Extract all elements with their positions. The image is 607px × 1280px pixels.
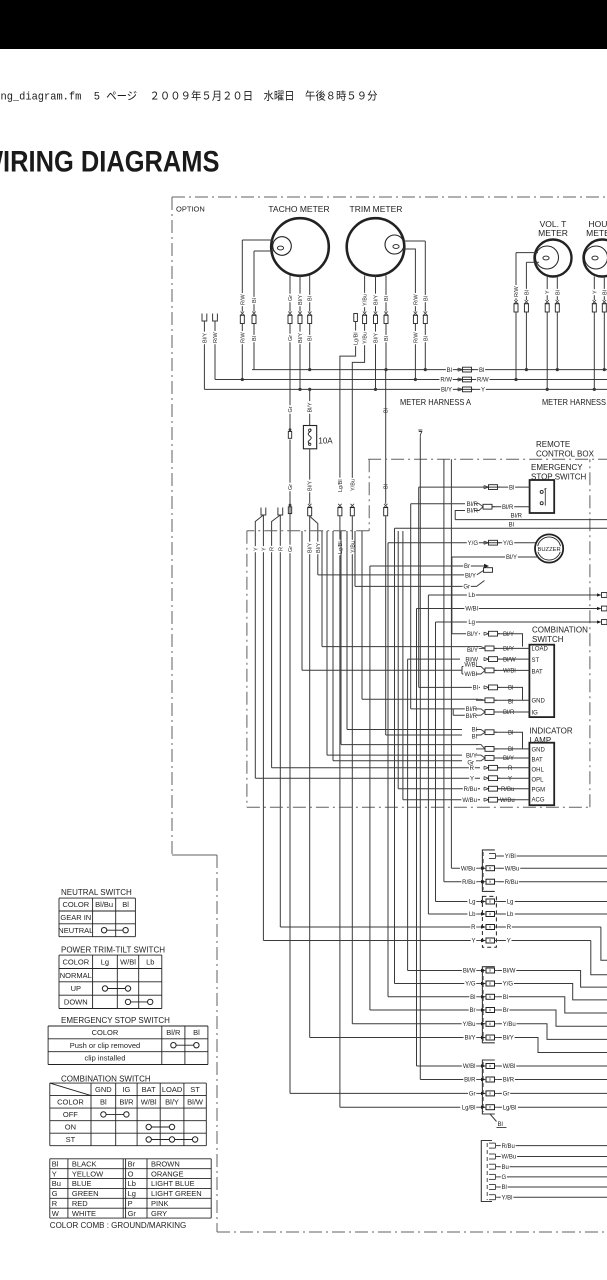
wire trim bulb Bl — [404, 240, 425, 242]
wire Bl bracket — [498, 687, 523, 700]
label Bl/Y — [201, 332, 207, 345]
svg-text:EMERGENCY: EMERGENCY — [531, 463, 583, 472]
wire Y/Bl right — [499, 1196, 607, 1198]
svg-text:Y/G: Y/G — [465, 982, 476, 988]
svg-text:ON: ON — [65, 1123, 76, 1132]
wire Bl/Y straight down to strip — [309, 516, 311, 1037]
svg-text:Lb: Lb — [468, 593, 475, 599]
svg-text:ST: ST — [190, 1085, 200, 1094]
wire Bl/R lower stub — [455, 511, 465, 520]
svg-text:W/Bl: W/Bl — [120, 957, 136, 966]
svg-text:Y/Bu: Y/Bu — [363, 332, 369, 344]
right edge connector Lb — [597, 593, 602, 596]
svg-text:Bl: Bl — [472, 735, 477, 741]
label Lg/Bl mid — [337, 478, 343, 494]
connector W/Bl merge — [476, 667, 485, 671]
svg-text:Y/Bl: Y/Bl — [505, 854, 516, 860]
strip half connector Bu — [489, 1163, 496, 1165]
label Bl/R — [501, 504, 514, 510]
strip Y/Bu row — [352, 1023, 477, 1025]
svg-text:Gr: Gr — [469, 1092, 476, 1098]
svg-text:Bl: Bl — [384, 296, 390, 301]
svg-text:OPTION: OPTION — [176, 205, 205, 214]
label Bl — [251, 297, 257, 304]
svg-text:POWER TRIM-TILT SWITCH: POWER TRIM-TILT SWITCH — [61, 945, 165, 954]
labels R — [470, 924, 476, 930]
svg-text:METER: METER — [538, 228, 568, 238]
svg-text:Br: Br — [128, 1159, 136, 1168]
label Y/Bl — [501, 1195, 514, 1201]
svg-text:PGM: PGM — [532, 787, 546, 793]
svg-text:R: R — [52, 1199, 58, 1208]
svg-text:ST: ST — [532, 658, 540, 664]
svg-text:Bl: Bl — [502, 1185, 507, 1191]
svg-text:Y/G: Y/G — [503, 982, 514, 988]
wire Bl/W ST — [408, 658, 460, 660]
wire Lg row — [436, 621, 598, 623]
connector R — [484, 766, 489, 769]
wire Bl/Y fork jog — [310, 516, 318, 575]
Bl/Y spade lead terminal — [484, 568, 493, 573]
svg-text:Gr: Gr — [463, 585, 470, 591]
svg-text:Bl/Y: Bl/Y — [316, 543, 322, 553]
wire Bl from trim — [385, 276, 387, 312]
svg-text:GND: GND — [532, 699, 546, 705]
wire R exit staircase — [601, 927, 607, 960]
connector Bl — [252, 312, 256, 316]
tacho meter bulb — [273, 237, 292, 256]
right edge connector Lg — [597, 620, 602, 623]
bus connector Bl — [458, 368, 463, 371]
right edge connector W/Bl — [597, 607, 602, 610]
svg-text:Lg: Lg — [468, 620, 475, 626]
svg-text:Lg: Lg — [101, 957, 109, 966]
svg-text:LOAD: LOAD — [162, 1085, 183, 1094]
table EMERGENCY STOP SWITCH — [48, 1025, 208, 1027]
svg-text:Bl/Y: Bl/Y — [374, 333, 380, 343]
svg-text:COMBINATION: COMBINATION — [532, 626, 588, 635]
wire Bl pair GND upper — [347, 729, 462, 731]
strip Y/G row — [395, 983, 478, 985]
svg-text:Bl/Y: Bl/Y — [298, 295, 304, 305]
table COMBINATION SWITCH — [50, 1082, 207, 1084]
label R/Bu — [501, 1143, 516, 1149]
svg-text:Bl/Y: Bl/Y — [308, 543, 314, 553]
neutral switch contact symbol — [104, 929, 126, 931]
strip Lb row — [428, 913, 477, 915]
wire R/Bu vertical — [443, 459, 445, 881]
label W/Bu — [501, 1154, 517, 1160]
label Bl/Y mid — [307, 480, 313, 493]
svg-text:Bl: Bl — [423, 336, 429, 341]
wire Y/Bu down — [351, 516, 353, 1024]
svg-text:Lb: Lb — [469, 912, 476, 918]
label W/Bl — [464, 606, 478, 612]
svg-text:COLOR: COLOR — [62, 900, 89, 909]
wire Y/G to buzzer — [388, 542, 537, 544]
svg-text:Gr: Gr — [288, 406, 294, 412]
svg-text:Bl/Bu: Bl/Bu — [95, 900, 113, 909]
connector Bl harness — [384, 504, 388, 508]
svg-text:Bl/Y: Bl/Y — [374, 295, 380, 305]
wire R/W to bus — [241, 324, 243, 380]
label Bl — [422, 295, 428, 302]
label Y/Bu mid — [349, 478, 355, 492]
svg-text:LIGHT GREEN: LIGHT GREEN — [151, 1189, 202, 1198]
svg-text:BAT: BAT — [142, 1085, 156, 1094]
emergency stop switch box — [530, 480, 555, 513]
svg-text:R/Bu: R/Bu — [462, 880, 475, 886]
wire Bl GND 1 — [419, 686, 480, 688]
wire Bl exit staircase — [499, 997, 607, 1013]
label Bl/Y — [464, 573, 477, 579]
svg-text:P: P — [128, 1199, 133, 1208]
hour meter body — [584, 240, 607, 277]
svg-text:GEAR IN: GEAR IN — [60, 913, 91, 922]
strip R row — [280, 926, 477, 928]
strip Y row — [263, 940, 477, 942]
svg-text:W/Bl: W/Bl — [141, 1097, 157, 1106]
wire R OHL — [272, 767, 480, 769]
strip Lg row — [436, 901, 478, 903]
wire R fork — [279, 515, 281, 927]
svg-text:Bl/R: Bl/R — [502, 505, 514, 511]
svg-text:Bu: Bu — [52, 1179, 61, 1188]
svg-text:Lg: Lg — [469, 900, 476, 906]
labels Lg/Bl — [460, 1105, 476, 1111]
svg-text:Bl/Y: Bl/Y — [202, 333, 208, 343]
connector Bl/Y — [484, 632, 489, 635]
strip R/Bu row — [444, 881, 477, 883]
label Bl — [523, 289, 529, 296]
labels Y — [471, 938, 477, 944]
stop switch contact symbol — [173, 1044, 196, 1046]
wire Bl exit row — [395, 527, 607, 529]
strip group4 bracket — [482, 1060, 494, 1114]
remote control box boundary — [368, 458, 607, 460]
wire Bl/Y LOAD 1 — [452, 633, 480, 635]
spade terminal R — [278, 508, 283, 516]
svg-text:R: R — [471, 925, 476, 931]
wire Bl bracket to GND — [495, 732, 523, 749]
svg-text:LAMP: LAMP — [529, 736, 551, 745]
wire Bl/R IG pair — [411, 708, 478, 710]
trim-tilt UP contact symbol — [105, 988, 128, 990]
wire Y/Bu exit staircase — [499, 1024, 607, 1040]
wire W/Bl row — [417, 608, 598, 610]
connector Y/G — [484, 541, 489, 544]
svg-text:COLOR: COLOR — [92, 1028, 119, 1037]
wire fork Bl/Y to bus — [203, 321, 205, 389]
labels Bl/R — [463, 1077, 476, 1083]
svg-text:Bl: Bl — [503, 995, 508, 1001]
combination OFF contact symbol — [103, 1113, 126, 1115]
combination switch pins — [531, 646, 549, 652]
indicator lamp box — [529, 743, 554, 806]
svg-text:Bl: Bl — [508, 686, 513, 692]
svg-text:BAT: BAT — [532, 669, 544, 675]
svg-text:W/Bl: W/Bl — [503, 1064, 516, 1070]
svg-text:Bl: Bl — [308, 336, 314, 341]
wire trim bulb R/W — [403, 249, 415, 312]
connector Bl/R merge — [474, 504, 483, 507]
svg-text:Bl/R: Bl/R — [467, 502, 479, 508]
strip dashed rail g5 — [486, 1143, 488, 1200]
svg-text:ACG: ACG — [532, 797, 545, 803]
svg-text:Y: Y — [481, 388, 485, 394]
wire Bl/R exit row — [455, 519, 607, 521]
wire Y right — [499, 940, 591, 942]
label G — [501, 1174, 507, 1180]
svg-text:Bl/Y: Bl/Y — [467, 632, 478, 638]
label Lb — [467, 592, 476, 598]
wire R right — [499, 926, 601, 928]
svg-text:Y/Bl: Y/Bl — [502, 1195, 513, 1201]
svg-text:DOWN: DOWN — [64, 997, 88, 1006]
svg-text:WHITE: WHITE — [72, 1209, 96, 1218]
connector Bl/Y fork — [308, 504, 312, 508]
bus connector Y — [458, 388, 463, 391]
svg-text:Bl: Bl — [509, 485, 514, 491]
strip half connector Y/Bl — [489, 1194, 496, 1196]
wire W/Bl right — [499, 1065, 607, 1067]
wire Br exit staircase — [499, 1010, 607, 1026]
svg-text:Bl/Y: Bl/Y — [165, 1097, 179, 1106]
label Gr below bus — [287, 405, 293, 413]
labels Bl/W — [462, 968, 476, 974]
combination switch box — [529, 645, 554, 717]
svg-text:EMERGENCY STOP SWITCH: EMERGENCY STOP SWITCH — [61, 1016, 170, 1025]
svg-text:Br: Br — [464, 564, 470, 570]
wire Bl right — [499, 1186, 607, 1188]
svg-text:Bl/R: Bl/R — [467, 509, 479, 515]
label Lg — [467, 619, 476, 625]
label Bl/Y — [297, 294, 303, 307]
svg-text:PINK: PINK — [151, 1199, 169, 1208]
connector R/W — [514, 300, 518, 304]
wire Gr down — [289, 324, 291, 429]
svg-text:Bl/Y: Bl/Y — [503, 632, 514, 638]
label R/W — [513, 285, 519, 298]
svg-text:Lb: Lb — [507, 912, 514, 918]
svg-text:Y: Y — [470, 776, 474, 782]
svg-text:Bl: Bl — [470, 995, 475, 1001]
svg-text:R/W: R/W — [240, 294, 246, 306]
connector Bl — [424, 312, 428, 316]
svg-text:R: R — [508, 766, 513, 772]
svg-text:TRIM METER: TRIM METER — [350, 204, 403, 214]
bus labels — [446, 367, 453, 373]
svg-text:Bl: Bl — [384, 484, 390, 489]
label Bl below bus — [383, 407, 389, 414]
svg-text:R/Bu: R/Bu — [505, 880, 518, 886]
svg-text:METER: METER — [586, 228, 607, 238]
label Y — [544, 289, 550, 295]
svg-text:Gr: Gr — [288, 335, 294, 341]
svg-text:Bl: Bl — [122, 900, 129, 909]
label Bl/R — [510, 513, 523, 519]
svg-text:R/W: R/W — [413, 332, 419, 344]
tacho meter body — [271, 218, 329, 276]
svg-text:Push or clip removed: Push or clip removed — [70, 1041, 140, 1050]
wire Lg/Bl right — [499, 1106, 607, 1108]
svg-text:TACHO METER: TACHO METER — [268, 204, 329, 214]
svg-text:Bl: Bl — [508, 747, 513, 753]
wire Bl/R upper to stop switch — [411, 503, 465, 505]
fork terminal Bl/Y — [202, 314, 207, 322]
wire R/Bu PGM — [398, 788, 480, 790]
svg-text:REMOTE: REMOTE — [536, 440, 570, 449]
svg-text:Bl: Bl — [193, 1028, 200, 1037]
indicator lamp pins — [531, 747, 545, 753]
svg-text:Y/Bu: Y/Bu — [503, 1022, 516, 1028]
buzzer — [535, 534, 563, 562]
svg-text:Bl/R: Bl/R — [503, 710, 515, 716]
strip half connector W/Bu — [489, 1153, 496, 1155]
labels Bl/R — [465, 706, 478, 712]
wire Bl/R to strip — [419, 438, 421, 1080]
wire Bl/Y BAT — [327, 754, 462, 756]
labels Bl/R pair — [466, 501, 479, 507]
svg-text:Y: Y — [261, 547, 267, 551]
svg-text:Gr: Gr — [288, 546, 294, 552]
wire Gr long down — [289, 440, 291, 1094]
svg-text:ORANGE: ORANGE — [151, 1169, 184, 1178]
combination ON contact symbol — [149, 1126, 172, 1128]
label Br — [463, 563, 471, 569]
connector Bl/R merge — [476, 709, 485, 712]
wire Lg right — [499, 901, 607, 903]
svg-text:LIGHT BLUE: LIGHT BLUE — [151, 1179, 195, 1188]
labels Bl/Y Gr — [465, 753, 478, 759]
bus wire Bl/Y — [204, 388, 607, 390]
label Gr mid — [287, 483, 293, 491]
svg-text:YELLOW: YELLOW — [72, 1169, 104, 1178]
labels W/Bl — [462, 1063, 476, 1069]
svg-text:Lg/Bl: Lg/Bl — [462, 1105, 476, 1111]
connector R/W — [414, 312, 418, 316]
label Lg/Bl low — [337, 540, 343, 556]
connector Bl/Y — [298, 312, 302, 316]
svg-text:R/Bu: R/Bu — [464, 787, 477, 793]
svg-text:W/Bl: W/Bl — [464, 672, 477, 678]
spade terminal Y — [261, 508, 266, 516]
svg-text:R/W: R/W — [413, 294, 419, 306]
fuse 10A — [303, 426, 316, 449]
wire Bl/Y lead — [318, 571, 484, 575]
connector R/W — [241, 312, 245, 316]
wire tacho R/W — [242, 239, 273, 241]
wire Y fork — [262, 515, 264, 941]
svg-text:R/W: R/W — [514, 286, 520, 298]
strip half connector G — [489, 1173, 496, 1175]
connector Y — [593, 300, 597, 304]
svg-text:Y/Bu: Y/Bu — [363, 294, 369, 306]
svg-text:OFF: OFF — [63, 1110, 78, 1119]
svg-text:W/Bl: W/Bl — [464, 663, 477, 669]
svg-text:Gr: Gr — [288, 484, 294, 490]
wire Bl to bus — [309, 324, 311, 370]
svg-text:Bl/W: Bl/W — [503, 657, 516, 663]
label Y/Bu — [361, 293, 367, 307]
svg-text:SWITCH: SWITCH — [532, 635, 564, 644]
wire W/Bu right — [499, 867, 607, 869]
labels Bl/Y — [464, 1035, 477, 1041]
strip half connector R/Bu — [489, 1142, 496, 1144]
strip dashed rail g1 — [482, 852, 484, 890]
svg-text:O: O — [128, 1169, 134, 1178]
svg-text:Y: Y — [508, 776, 512, 782]
strip dashed rail g3 — [482, 969, 484, 1041]
label Bl — [501, 1184, 508, 1190]
svg-text:W/Bu: W/Bu — [505, 866, 520, 872]
connector Lg/Bl — [338, 504, 342, 508]
svg-text:Bl/R: Bl/R — [464, 1078, 476, 1084]
svg-text:Bl/W: Bl/W — [187, 1097, 204, 1106]
combination ST contact symbol — [149, 1139, 195, 1141]
connector Bl — [556, 300, 560, 304]
svg-text:Br: Br — [503, 1008, 509, 1014]
wire Bl/Y from tacho — [299, 276, 301, 312]
wire Gr BAT — [333, 760, 462, 762]
labels Y/G — [464, 981, 476, 987]
svg-text:Bl/Y: Bl/Y — [506, 555, 517, 561]
svg-text:R: R — [270, 547, 276, 551]
label R — [268, 546, 274, 552]
label Bl/Y low B — [315, 542, 321, 555]
half connector Bl/R top — [418, 429, 422, 431]
svg-text:Y: Y — [592, 290, 598, 294]
wire Gr right — [499, 1092, 607, 1094]
svg-text:Bl/Y: Bl/Y — [503, 647, 514, 653]
wire W/Bu vertical — [450, 459, 452, 868]
svg-text:W/Bl: W/Bl — [465, 607, 478, 613]
svg-text:COLOR: COLOR — [57, 1097, 84, 1106]
labels Bl Bl — [471, 727, 478, 733]
svg-text:Bl: Bl — [479, 368, 484, 374]
svg-text:IG: IG — [122, 1085, 130, 1094]
wire R/Bu right — [499, 881, 607, 883]
wire Lb right — [499, 913, 607, 915]
svg-text:RED: RED — [72, 1199, 88, 1208]
svg-text:Bu: Bu — [502, 1165, 509, 1171]
label Bl — [601, 289, 607, 296]
svg-text:Bl: Bl — [384, 336, 390, 341]
label Bl — [383, 295, 389, 302]
connector Y/Bu — [351, 504, 355, 508]
wire Br lead — [370, 565, 478, 567]
svg-text:Bl: Bl — [555, 290, 561, 295]
connector Bl — [525, 300, 529, 304]
connector Y/Bu — [363, 312, 367, 316]
label Y/Bu low — [349, 540, 355, 554]
connector Bl — [484, 686, 489, 689]
svg-text:W/Bl: W/Bl — [503, 669, 516, 675]
stop switch contacts — [540, 490, 543, 493]
svg-text:COMBINATION SWITCH: COMBINATION SWITCH — [61, 1075, 151, 1084]
label Gr — [287, 294, 293, 302]
connector Bl merge — [476, 730, 485, 733]
wire Bl to stop switch — [419, 486, 530, 488]
wire G right — [499, 1176, 607, 1178]
bus wire R/W — [215, 379, 607, 381]
labels Br — [469, 1007, 477, 1013]
connector Bl/Y merge — [476, 647, 485, 649]
svg-text:Bl/R: Bl/R — [511, 514, 523, 520]
fork terminal R/W — [213, 314, 218, 322]
svg-text:W/Bu: W/Bu — [462, 798, 477, 804]
svg-text:G: G — [52, 1189, 58, 1198]
